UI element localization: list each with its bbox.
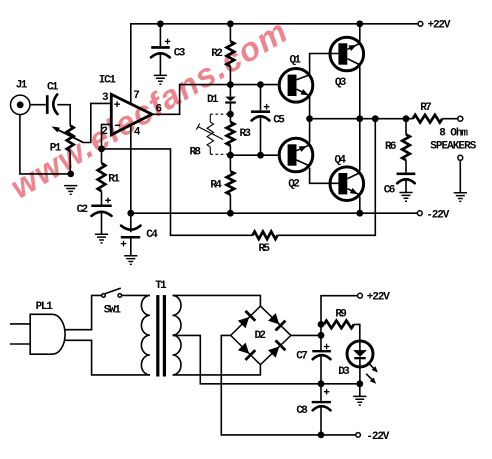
svg-text:6: 6: [156, 104, 163, 116]
svg-text:C8: C8: [296, 405, 308, 417]
svg-text:C3: C3: [174, 47, 186, 59]
svg-text:+22V: +22V: [428, 20, 451, 32]
svg-text:-22V: -22V: [426, 210, 449, 222]
svg-text:C5: C5: [273, 115, 285, 127]
svg-text:D3: D3: [338, 366, 350, 378]
svg-text:C7: C7: [296, 351, 308, 363]
svg-text:+22V: +22V: [367, 292, 390, 304]
svg-text:T1: T1: [155, 280, 167, 292]
svg-text:R1: R1: [108, 174, 120, 186]
svg-text:2: 2: [101, 126, 108, 138]
svg-text:R4: R4: [210, 180, 222, 192]
svg-text:8 Ohm: 8 Ohm: [439, 128, 468, 140]
svg-text:7: 7: [133, 90, 140, 102]
svg-text:R5: R5: [259, 243, 271, 255]
svg-text:Q1: Q1: [290, 55, 302, 67]
svg-text:R9: R9: [335, 309, 347, 321]
svg-text:C4: C4: [146, 229, 158, 241]
svg-text:R7: R7: [420, 102, 432, 114]
svg-text:C6: C6: [384, 185, 396, 197]
svg-text:D2: D2: [255, 330, 267, 342]
svg-text:R2: R2: [211, 48, 223, 60]
svg-text:SW1: SW1: [104, 305, 122, 317]
svg-text:R6: R6: [385, 141, 397, 153]
svg-text:4: 4: [134, 127, 141, 139]
svg-text:SPEAKERS: SPEAKERS: [430, 140, 476, 152]
svg-text:C2: C2: [77, 204, 89, 216]
svg-text:D1: D1: [207, 94, 219, 106]
svg-text:J1: J1: [16, 79, 28, 91]
svg-text:Q4: Q4: [335, 155, 347, 167]
svg-text:3: 3: [102, 92, 109, 104]
svg-text:-22V: -22V: [366, 431, 389, 443]
svg-text:Q3: Q3: [335, 77, 347, 89]
svg-text:Q2: Q2: [288, 178, 300, 190]
svg-text:C1: C1: [47, 81, 59, 93]
svg-text:P1: P1: [50, 142, 62, 154]
svg-text:IC1: IC1: [99, 75, 117, 87]
svg-text:R3: R3: [240, 128, 252, 140]
svg-text:PL1: PL1: [36, 301, 54, 313]
svg-text:R8: R8: [190, 146, 202, 158]
